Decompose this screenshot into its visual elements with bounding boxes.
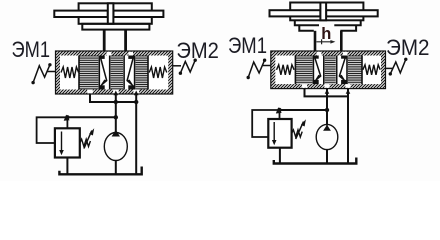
- svg-text:ЭМ1: ЭМ1: [12, 37, 51, 62]
- svg-text:ЭМ2: ЭМ2: [176, 38, 219, 63]
- svg-text:ЭМ2: ЭМ2: [386, 35, 430, 60]
- svg-text:ЭМ1: ЭМ1: [228, 33, 267, 58]
- svg-text:h: h: [321, 25, 331, 43]
